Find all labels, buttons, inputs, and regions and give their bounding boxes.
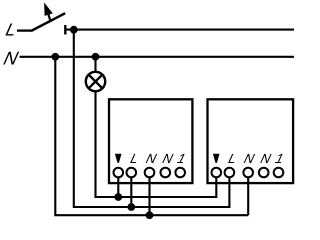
- box U2 terminal marker triangle: [213, 154, 220, 163]
- box U2: [208, 99, 294, 183]
- box U2 label N: [242, 151, 256, 166]
- switch fixed contact bar: [64, 25, 66, 35]
- node: switched-L junction: [70, 26, 78, 34]
- svg-text:1: 1: [274, 151, 285, 166]
- wire: box U1 N terminal drop: [148, 177, 150, 215]
- box U2 label L: [227, 151, 238, 166]
- wire: lamp feed from N: [94, 57, 96, 72]
- svg-text:N: N: [259, 151, 273, 166]
- box U2 label N: [259, 151, 273, 166]
- svg-text:1: 1: [176, 151, 187, 166]
- wire N bus (top): [20, 56, 294, 58]
- wire L bus (top): [65, 29, 294, 31]
- box U1 label N: [161, 151, 175, 166]
- svg-text:N: N: [242, 151, 256, 166]
- wire: N drop to bottom N bus: [55, 57, 248, 215]
- label N (neutral): [2, 48, 21, 69]
- label L (phase): [4, 20, 19, 40]
- node: N junction at lamp: [92, 53, 100, 61]
- svg-text:N: N: [2, 48, 21, 69]
- box U1 terminal circles: [114, 168, 186, 178]
- wire: switched-L drop to bottom L bus: [74, 30, 230, 207]
- node: output bus junction: [114, 193, 122, 201]
- box U1 terminal marker triangle: [115, 154, 122, 163]
- node: N bus junction: [146, 211, 154, 219]
- box U2 label 1: [274, 151, 285, 166]
- box U2 terminal circles: [212, 168, 284, 178]
- wire: N bus up into box2 terminal N: [247, 177, 249, 215]
- wire: box U1 output terminal drop: [117, 177, 119, 197]
- node: L bus junction: [127, 203, 135, 211]
- box U1 label N: [144, 151, 158, 166]
- box U1 label 1: [176, 151, 187, 166]
- switch S blade: [31, 13, 65, 31]
- svg-text:L: L: [227, 151, 238, 166]
- switch actuation arrow: [44, 2, 53, 22]
- box U1: [109, 99, 192, 183]
- switch S left stub: [17, 29, 32, 31]
- wire: lamp to bottom output bus: [96, 91, 217, 197]
- lamp E1: [86, 72, 105, 91]
- svg-text:N: N: [161, 151, 175, 166]
- node: N junction left: [51, 53, 59, 61]
- svg-text:L: L: [4, 20, 19, 40]
- svg-text:L: L: [129, 151, 140, 166]
- box U1 label L: [129, 151, 140, 166]
- wire: box U1 L terminal drop: [130, 177, 132, 207]
- svg-text:N: N: [144, 151, 158, 166]
